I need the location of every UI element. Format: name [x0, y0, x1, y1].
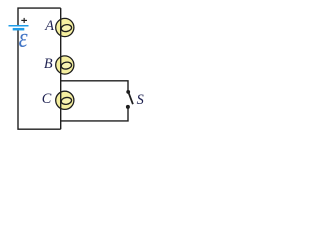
filament of lamp B	[61, 61, 72, 70]
svg-text:ε: ε	[19, 24, 28, 53]
wire: top from battery to lamp column	[18, 8, 61, 25]
battery short plate (negative)	[13, 28, 25, 31]
filament of lamp A	[61, 24, 72, 33]
svg-text:C: C	[42, 91, 52, 107]
lamp B	[56, 56, 74, 74]
wire: switch branch top	[61, 81, 128, 92]
plus sign	[21, 18, 27, 23]
switch S blade	[128, 92, 133, 104]
wire: switch branch bottom	[61, 107, 128, 121]
svg-text:S: S	[137, 92, 144, 108]
svg-text:B: B	[44, 56, 53, 72]
switch S contact bottom	[126, 105, 130, 109]
wire: lamp column vertical	[60, 8, 62, 129]
svg-text:A: A	[44, 18, 54, 34]
lamp A	[56, 18, 74, 36]
switch S contact top	[126, 90, 130, 94]
wire: bottom from lamp column to battery	[18, 30, 61, 129]
filament of lamp C	[61, 97, 72, 106]
lamp C	[56, 91, 74, 109]
battery long plate (positive)	[9, 25, 29, 27]
